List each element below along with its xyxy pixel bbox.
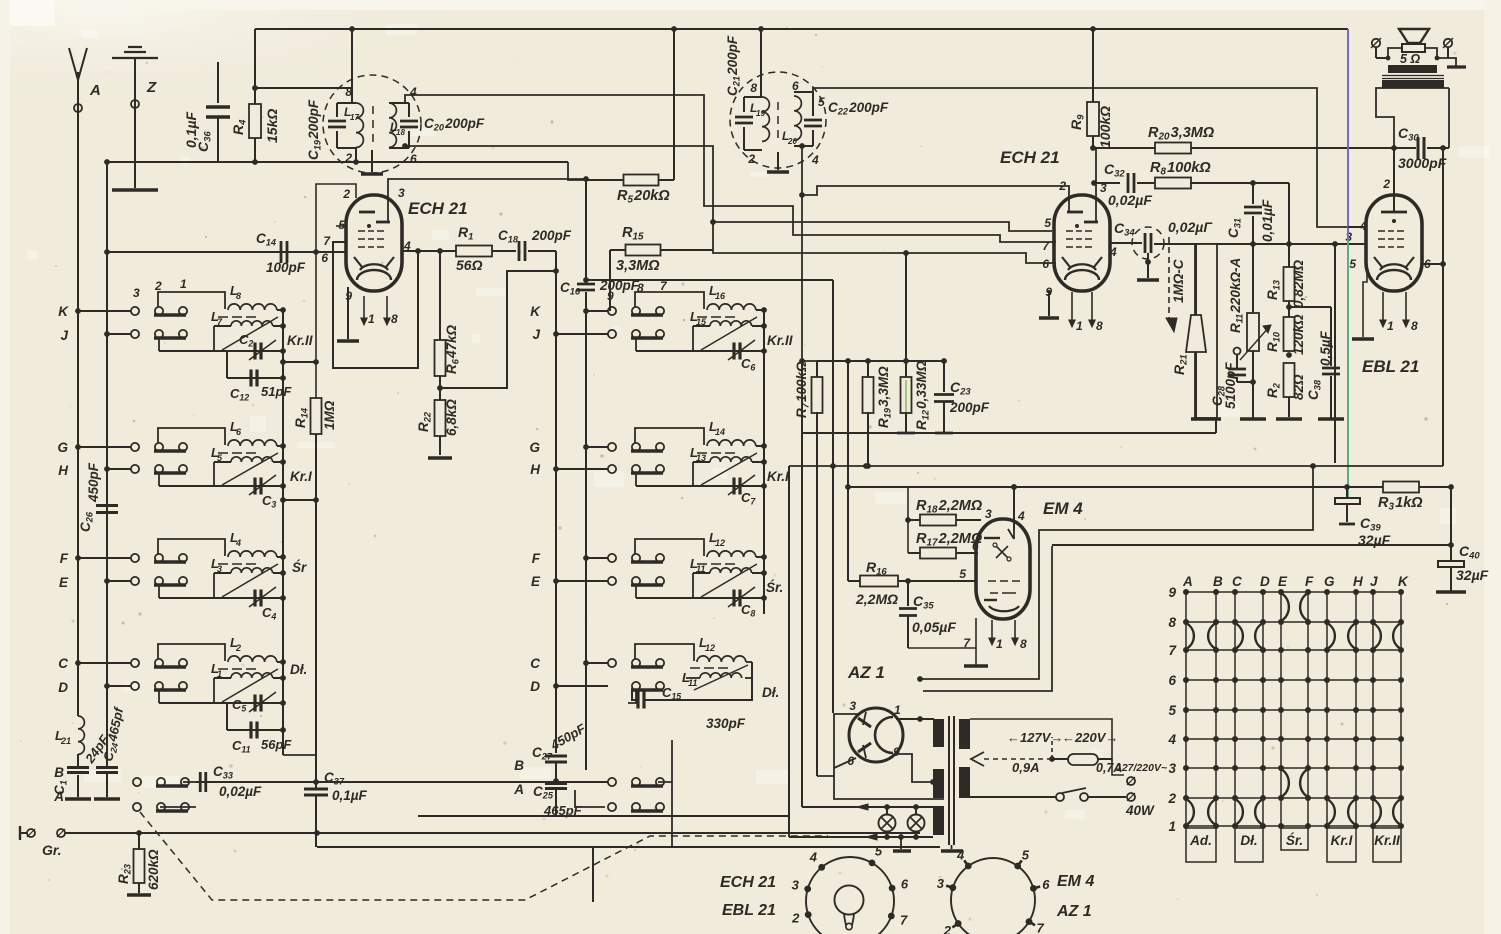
svg-text:2: 2 bbox=[1382, 177, 1390, 191]
AZ1 anode wire to transformer bbox=[896, 718, 934, 720]
svg-text:6: 6 bbox=[321, 251, 328, 265]
svg-text:Śr.: Śr. bbox=[766, 580, 783, 595]
switch section AB middle bbox=[608, 778, 616, 786]
svg-text:F: F bbox=[60, 551, 69, 566]
inductor L12b middle bbox=[635, 644, 694, 661]
T2 pin8 wire to top bus bbox=[760, 29, 762, 97]
svg-text:Kr.I: Kr.I bbox=[767, 469, 789, 484]
svg-text:J: J bbox=[60, 328, 68, 343]
resistor R1 56ohm bbox=[456, 246, 492, 257]
resistor R2 82ohm bbox=[1284, 363, 1295, 397]
svg-text:G: G bbox=[57, 440, 68, 455]
svg-text:R3 1kΩ: R3 1kΩ bbox=[1378, 495, 1423, 513]
T1 ground bbox=[371, 150, 373, 172]
IF transformer T2 shield dashed circle bbox=[730, 72, 826, 168]
svg-text:0,9A: 0,9A bbox=[1012, 760, 1039, 775]
capacitor C11 56pF bbox=[226, 703, 228, 730]
switch contacts L14 row1 bbox=[608, 443, 616, 451]
svg-text:6,8kΩ: 6,8kΩ bbox=[444, 399, 459, 436]
svg-text:0,1µF: 0,1µF bbox=[183, 111, 199, 148]
inductor L14 bbox=[635, 428, 704, 445]
capacitor C23 200pF bbox=[943, 361, 945, 392]
svg-text:18: 18 bbox=[396, 128, 405, 137]
wire bus y162 to oscillator bbox=[255, 161, 568, 163]
svg-text:2: 2 bbox=[943, 923, 952, 934]
svg-text:200pF: 200pF bbox=[599, 278, 640, 293]
C34 ground bbox=[1147, 253, 1149, 278]
heater wires with lamps bbox=[802, 806, 933, 808]
svg-text:ECH 21: ECH 21 bbox=[720, 874, 776, 891]
EM4 internals bbox=[984, 537, 1000, 539]
svg-text:1: 1 bbox=[1168, 819, 1176, 834]
svg-text:R5 20kΩ: R5 20kΩ bbox=[617, 188, 670, 206]
wire second bus bbox=[106, 162, 108, 766]
svg-text:0,01µF: 0,01µF bbox=[1260, 199, 1275, 242]
svg-text:2: 2 bbox=[235, 643, 241, 653]
wire KrII out bbox=[283, 361, 316, 363]
resistor R14 1M bbox=[311, 398, 322, 434]
wire T1 pin4 to ECH2 bbox=[405, 95, 1056, 242]
matrix column C bbox=[1234, 592, 1236, 826]
matrix band boxes bbox=[1186, 828, 1216, 862]
capacitor C14 100pF bbox=[107, 251, 346, 253]
svg-text:D: D bbox=[1260, 574, 1270, 589]
matrix row 7 bbox=[1186, 649, 1401, 651]
wire detector line to EBL21 bbox=[1154, 243, 1366, 245]
svg-text:ECH 21: ECH 21 bbox=[1000, 148, 1060, 167]
svg-text:4: 4 bbox=[409, 85, 417, 99]
svg-text:0,02µΓ: 0,02µΓ bbox=[1168, 219, 1213, 235]
trimmer capacitor L16 bbox=[732, 343, 735, 360]
svg-text:K: K bbox=[58, 304, 69, 319]
wire bus y487 screen line bbox=[848, 486, 1451, 488]
wire bus y545 bbox=[1052, 544, 1451, 546]
svg-text:4: 4 bbox=[811, 153, 819, 167]
EM4 pins 1 8 arrows bbox=[991, 620, 993, 643]
svg-text:3,3MΩ: 3,3MΩ bbox=[616, 258, 660, 274]
svg-text:127/220V~: 127/220V~ bbox=[1116, 762, 1167, 774]
left bus wires bbox=[78, 310, 131, 312]
svg-text:F: F bbox=[1305, 574, 1314, 589]
svg-text:5: 5 bbox=[875, 844, 883, 859]
wire R4 to IF1 bbox=[255, 87, 352, 89]
matrix column F bbox=[1307, 592, 1309, 826]
capacitor C28 5100pF bbox=[1234, 348, 1241, 355]
capacitor C1 bbox=[67, 766, 89, 769]
svg-text:21: 21 bbox=[60, 736, 71, 746]
svg-text:Kr.II: Kr.II bbox=[287, 333, 313, 348]
wire bottom bus 2 bbox=[317, 846, 940, 848]
svg-text:G: G bbox=[529, 440, 540, 455]
capacitor C37 0,1uF bbox=[304, 788, 328, 791]
svg-text:9: 9 bbox=[607, 289, 614, 303]
svg-text:AZ 1: AZ 1 bbox=[1056, 903, 1092, 920]
svg-text:7: 7 bbox=[1037, 920, 1045, 934]
svg-text:330pF: 330pF bbox=[706, 716, 746, 731]
svg-text:E: E bbox=[1278, 574, 1288, 589]
inductor L1 tuned bbox=[158, 690, 160, 703]
T2 core dashes bbox=[777, 102, 779, 138]
left coil bus down bbox=[282, 310, 284, 755]
T2 pin6 wire to EBL21 grid bbox=[813, 88, 1366, 227]
svg-text:H: H bbox=[1353, 574, 1363, 589]
svg-text:200pF: 200pF bbox=[949, 400, 990, 415]
inductor L3 tuned bbox=[158, 585, 160, 598]
svg-text:8: 8 bbox=[236, 291, 241, 301]
svg-text:4: 4 bbox=[1017, 509, 1025, 523]
paper speckles bbox=[492, 147, 495, 150]
resistor R10 120k bbox=[1284, 317, 1295, 351]
svg-text:Śr: Śr bbox=[292, 560, 307, 575]
matrix row 5 bbox=[1186, 709, 1401, 711]
speaker terminal left bbox=[1372, 39, 1380, 47]
resistor R20 3,3M bbox=[1155, 143, 1191, 154]
capacitor C26 450pF bbox=[96, 504, 118, 507]
matrix junction dots bbox=[1183, 589, 1189, 595]
svg-text:Kr.I: Kr.I bbox=[290, 469, 312, 484]
svg-text:8: 8 bbox=[1020, 637, 1027, 651]
band section Dl middle bbox=[586, 662, 608, 664]
svg-text:40W: 40W bbox=[1125, 803, 1155, 818]
svg-text:9: 9 bbox=[1168, 585, 1176, 600]
capacitor C31 0,01uF bbox=[1250, 180, 1256, 186]
svg-text:3: 3 bbox=[849, 699, 856, 713]
matrix column B bbox=[1215, 592, 1217, 826]
capacitor C33 0,02uF bbox=[196, 781, 242, 783]
tube ECH21 second bbox=[1054, 195, 1110, 291]
resistor R8 100k bbox=[1155, 178, 1191, 189]
svg-text:2: 2 bbox=[1167, 791, 1176, 806]
svg-text:E: E bbox=[59, 575, 69, 590]
svg-text:5: 5 bbox=[1022, 848, 1030, 863]
svg-text:0,5µF: 0,5µF bbox=[1318, 330, 1333, 366]
pilot lamp 2 bbox=[908, 815, 925, 832]
inductor L6 bbox=[158, 428, 225, 445]
svg-text:Dł.: Dł. bbox=[762, 685, 779, 700]
matrix row 3 bbox=[1186, 767, 1401, 769]
AZ1 left wires bbox=[834, 714, 944, 799]
svg-text:Kr.II: Kr.II bbox=[767, 333, 793, 348]
svg-text:R18 2,2MΩ: R18 2,2MΩ bbox=[916, 498, 983, 516]
switch contacts L6 row2 bbox=[131, 465, 139, 473]
svg-text:2,2MΩ: 2,2MΩ bbox=[855, 591, 898, 607]
svg-text:11: 11 bbox=[696, 564, 705, 574]
EBL21 cathode ground bbox=[1363, 268, 1367, 337]
inductor L2 bbox=[158, 644, 225, 661]
svg-text:3: 3 bbox=[1168, 761, 1176, 776]
resistor R4 15k bbox=[254, 29, 256, 104]
svg-text:3: 3 bbox=[217, 564, 222, 574]
switch contacts L12 row2 bbox=[608, 577, 616, 585]
svg-text:0,82MΩ: 0,82MΩ bbox=[1291, 259, 1306, 308]
svg-text:120kΩ: 120kΩ bbox=[1291, 314, 1306, 355]
matrix row 9 bbox=[1186, 591, 1401, 593]
svg-text:D: D bbox=[530, 679, 540, 694]
matrix row 1 bbox=[1186, 825, 1401, 827]
power transformer left winding bbox=[933, 719, 944, 747]
tap 0,9A bbox=[971, 752, 984, 766]
svg-text:AZ 1: AZ 1 bbox=[847, 663, 885, 682]
svg-text:100pF: 100pF bbox=[266, 260, 306, 275]
capacitor C20 in T1 bbox=[408, 103, 410, 117]
svg-text:Ad.: Ad. bbox=[1189, 833, 1212, 848]
svg-text:100kΩ: 100kΩ bbox=[1097, 106, 1113, 148]
svg-text:EBL 21: EBL 21 bbox=[1362, 357, 1419, 376]
svg-text:2: 2 bbox=[747, 152, 755, 166]
inductor L20 bbox=[794, 96, 801, 140]
T2 pin4 wire down to R7 bbox=[802, 146, 817, 361]
svg-text:R8 100kΩ: R8 100kΩ bbox=[1150, 160, 1211, 178]
capacitor C12 51pF bbox=[226, 352, 228, 378]
switch contacts L4 row1 bbox=[131, 554, 139, 562]
wire antenna vertical bus bbox=[77, 112, 79, 716]
svg-text:ECH 21: ECH 21 bbox=[408, 199, 468, 218]
wire bus y433 bbox=[802, 432, 1216, 434]
AZ1 filament wire to winding bbox=[897, 754, 933, 782]
ECH21-2 pin9 ground bbox=[1048, 290, 1050, 316]
band section Sr middle bbox=[586, 557, 608, 559]
svg-text:←220V→: ←220V→ bbox=[1062, 730, 1118, 745]
wire C36 bottom to R4 bbox=[107, 161, 255, 163]
inductor L4 bbox=[158, 539, 225, 556]
potentiometer R11 220k-A volume bbox=[1252, 244, 1254, 314]
svg-text:13: 13 bbox=[696, 453, 706, 463]
trimmer capacitor L8 bbox=[253, 343, 256, 360]
switch contacts L2 row2 bbox=[131, 682, 139, 690]
svg-text:6: 6 bbox=[1042, 257, 1049, 271]
wire middle coil bus bbox=[763, 310, 765, 614]
svg-text:C: C bbox=[1232, 574, 1242, 589]
output transformer secondary winding block bbox=[1388, 65, 1437, 73]
svg-text:5: 5 bbox=[818, 95, 825, 109]
svg-text:4: 4 bbox=[235, 538, 241, 548]
svg-text:620kΩ: 620kΩ bbox=[146, 849, 161, 890]
svg-text:EM 4: EM 4 bbox=[1057, 873, 1094, 890]
svg-text:3000pF: 3000pF bbox=[1398, 155, 1447, 171]
svg-text:R6 47kΩ: R6 47kΩ bbox=[444, 324, 460, 374]
svg-text:82Ω: 82Ω bbox=[1291, 374, 1306, 400]
svg-text:F: F bbox=[532, 551, 541, 566]
power transformer right winding bbox=[959, 719, 970, 749]
svg-text:5: 5 bbox=[1349, 257, 1356, 271]
inductor L5 tuned bbox=[158, 473, 160, 486]
matrix coil arcs rows 9-8 bbox=[1281, 593, 1289, 621]
switch contacts L8 row1 bbox=[131, 307, 139, 315]
ECH21-1 pins 1 8 heater arrows bbox=[363, 296, 365, 323]
svg-text:0,05µF: 0,05µF bbox=[912, 619, 956, 635]
svg-text:G: G bbox=[1324, 574, 1335, 589]
svg-text:C19 200pF: C19 200pF bbox=[306, 99, 322, 160]
trimmer capacitor L12 bbox=[732, 590, 735, 607]
svg-text:A: A bbox=[89, 82, 101, 99]
svg-text:16: 16 bbox=[715, 291, 726, 301]
wire bus y463 bbox=[789, 465, 1443, 467]
wire anode supply row bbox=[1093, 147, 1394, 149]
tube EM4 bbox=[976, 519, 1030, 619]
svg-text:1MΩ: 1MΩ bbox=[322, 400, 337, 430]
matrix coil arcs rows 2-1 bbox=[1186, 799, 1194, 825]
svg-text:C: C bbox=[58, 656, 68, 671]
svg-text:C21 200pF: C21 200pF bbox=[725, 35, 741, 96]
capacitor C15 330pF bbox=[636, 692, 639, 709]
inductor L7 tuned bbox=[158, 338, 160, 351]
switch contacts L6 row1 bbox=[131, 443, 139, 451]
mains selector box bbox=[970, 719, 1112, 761]
capacitor C39 32uF electrolytic bbox=[1346, 487, 1348, 497]
wire nested L outer bbox=[920, 466, 1313, 679]
svg-text:R7 100kΩ: R7 100kΩ bbox=[794, 361, 810, 418]
resistor R7 100k bbox=[816, 361, 818, 378]
svg-text:8: 8 bbox=[1096, 319, 1103, 333]
svg-text:5: 5 bbox=[959, 567, 966, 581]
svg-text:4: 4 bbox=[1167, 732, 1176, 747]
svg-text:8: 8 bbox=[750, 81, 757, 95]
speaker voice coil box bbox=[1402, 44, 1425, 52]
resistor R17 2,2M bbox=[908, 552, 921, 554]
svg-text:EM 4: EM 4 bbox=[1043, 499, 1083, 518]
svg-text:5100pF: 5100pF bbox=[1223, 362, 1238, 409]
svg-text:H: H bbox=[58, 463, 68, 478]
svg-text:4: 4 bbox=[809, 849, 818, 864]
wire EBL21 left branch bbox=[1334, 244, 1336, 463]
wire R12 feed from AVC line bbox=[905, 253, 907, 361]
matrix column A bbox=[1185, 592, 1187, 826]
trimmer capacitor L2 bbox=[253, 695, 256, 712]
wire right vertical from C30 bbox=[1442, 148, 1444, 466]
svg-text:0,02µF: 0,02µF bbox=[219, 784, 262, 799]
wire IF1 pin6 to ECH2 bbox=[405, 146, 1056, 263]
resistor R15 3,3M bbox=[609, 250, 611, 311]
tube EBL21 bbox=[1366, 195, 1422, 291]
loudspeaker cone bbox=[1399, 29, 1429, 43]
svg-text:2: 2 bbox=[791, 911, 800, 926]
svg-text:6: 6 bbox=[410, 152, 417, 166]
inductor L11 tuned bbox=[635, 585, 637, 598]
svg-text:1: 1 bbox=[1387, 319, 1394, 333]
matrix column J bbox=[1372, 592, 1374, 826]
svg-text:4: 4 bbox=[1109, 245, 1117, 259]
T1 pin2 wire to bus bbox=[355, 148, 357, 162]
inductor L17 bbox=[356, 103, 363, 147]
inductor L19 bbox=[762, 97, 769, 141]
svg-text:0,1µF: 0,1µF bbox=[332, 788, 368, 803]
earth electrode Z bbox=[112, 47, 158, 58]
wire nested L inner bbox=[923, 546, 1052, 691]
matrix row 6 bbox=[1186, 679, 1401, 681]
svg-text:2: 2 bbox=[342, 187, 350, 201]
wire heater feed vertical bbox=[832, 280, 834, 713]
svg-text:7: 7 bbox=[900, 912, 908, 927]
svg-text:3: 3 bbox=[398, 186, 405, 200]
svg-text:1MΩ-C: 1MΩ-C bbox=[1171, 259, 1186, 303]
svg-text:Dł.: Dł. bbox=[290, 662, 307, 677]
wire to ECH2 pin2 bbox=[802, 186, 1069, 212]
trimmer capacitor L14 bbox=[732, 478, 735, 495]
svg-text:9: 9 bbox=[893, 745, 900, 759]
svg-text:17: 17 bbox=[350, 113, 359, 122]
svg-text:8: 8 bbox=[1411, 319, 1418, 333]
matrix row 4 bbox=[1186, 738, 1401, 740]
svg-text:R17 2,2MΩ: R17 2,2MΩ bbox=[916, 531, 983, 549]
ECH21-1 pin4 wire bbox=[402, 250, 456, 252]
svg-text:A: A bbox=[513, 782, 524, 797]
svg-text:1: 1 bbox=[1076, 319, 1083, 333]
svg-text:K: K bbox=[530, 304, 541, 319]
svg-text:R20 3,3MΩ: R20 3,3MΩ bbox=[1148, 125, 1215, 143]
svg-text:E: E bbox=[531, 574, 541, 589]
resistor R3 1k bbox=[1383, 482, 1419, 493]
svg-text:1: 1 bbox=[368, 312, 375, 326]
potentiometer R21 1M-C bbox=[1195, 244, 1217, 418]
dashed mechanical link bbox=[140, 812, 828, 900]
wire pin4 cathode loop bbox=[333, 242, 418, 368]
capacitor C16 200pF bbox=[585, 179, 587, 282]
capacitor C19 in T1 bbox=[336, 103, 338, 117]
wire C37 to bus bbox=[315, 833, 317, 847]
dashed AVC arrow to R21 bbox=[1168, 237, 1170, 325]
resistor R19 3,3M bbox=[867, 361, 869, 378]
capacitor C25 465pF bbox=[545, 782, 567, 785]
svg-text:K: K bbox=[1398, 574, 1409, 589]
svg-text:20: 20 bbox=[787, 137, 797, 146]
svg-text:3: 3 bbox=[133, 286, 140, 300]
svg-text:6: 6 bbox=[792, 79, 799, 93]
switch contacts L16 row1 bbox=[608, 307, 616, 315]
svg-text:19: 19 bbox=[756, 109, 765, 118]
wire R7 to AZ1 box bbox=[817, 775, 834, 777]
switch contacts Dl row1 bbox=[608, 659, 616, 667]
svg-text:1: 1 bbox=[996, 637, 1003, 651]
mains switch bbox=[970, 796, 1056, 798]
switch contacts L16 row2 bbox=[608, 330, 616, 338]
inductor L13 tuned bbox=[635, 473, 637, 486]
wire top supply bus bbox=[255, 28, 1348, 30]
trimmer capacitor L6 bbox=[253, 478, 256, 495]
capacitor C40 32uF electrolytic bbox=[1450, 545, 1452, 560]
record player input Gr bbox=[19, 826, 21, 840]
matrix row 2 bbox=[1186, 797, 1401, 799]
ECH21-2 pins 1 8 arrows bbox=[1071, 292, 1073, 325]
matrix coil arcs rows 8-7 bbox=[1186, 623, 1194, 649]
svg-text:14: 14 bbox=[715, 427, 725, 437]
capacitor C32 0,02uF bbox=[1094, 182, 1120, 184]
resistor R13 0,82M bbox=[1288, 244, 1290, 267]
resistor R22 6,8k bbox=[435, 400, 446, 436]
svg-text:1: 1 bbox=[894, 703, 901, 717]
inductor L8 bbox=[158, 292, 225, 309]
inductor L12 bbox=[635, 539, 704, 556]
matrix coil arcs rows 3-2 bbox=[1281, 769, 1289, 797]
wire R6 junction to oscillator bus bbox=[440, 271, 556, 388]
inductor L18 bbox=[389, 103, 396, 147]
capacitor C18 200pF bbox=[492, 250, 516, 252]
resistor R6 47k bbox=[439, 251, 441, 340]
resistor R12 0,33M bbox=[905, 361, 907, 378]
switch contacts L12 row1 bbox=[608, 554, 616, 562]
resistor R5 20k bbox=[586, 179, 624, 181]
switch section AB left bbox=[133, 778, 141, 786]
svg-text:R19 3,3MΩ: R19 3,3MΩ bbox=[876, 366, 892, 428]
svg-text:200pF: 200pF bbox=[531, 228, 572, 243]
svg-text:6: 6 bbox=[1168, 673, 1176, 688]
speaker terminal right bbox=[1444, 39, 1452, 47]
svg-text:←127V→: ←127V→ bbox=[1007, 730, 1063, 745]
svg-text:56Ω: 56Ω bbox=[456, 257, 483, 273]
svg-text:Dł.: Dł. bbox=[1240, 833, 1257, 848]
EBL21 pins 1 8 arrows bbox=[1382, 292, 1384, 325]
svg-text:6: 6 bbox=[1042, 877, 1050, 892]
T1 pin 8 wire bbox=[351, 29, 353, 103]
